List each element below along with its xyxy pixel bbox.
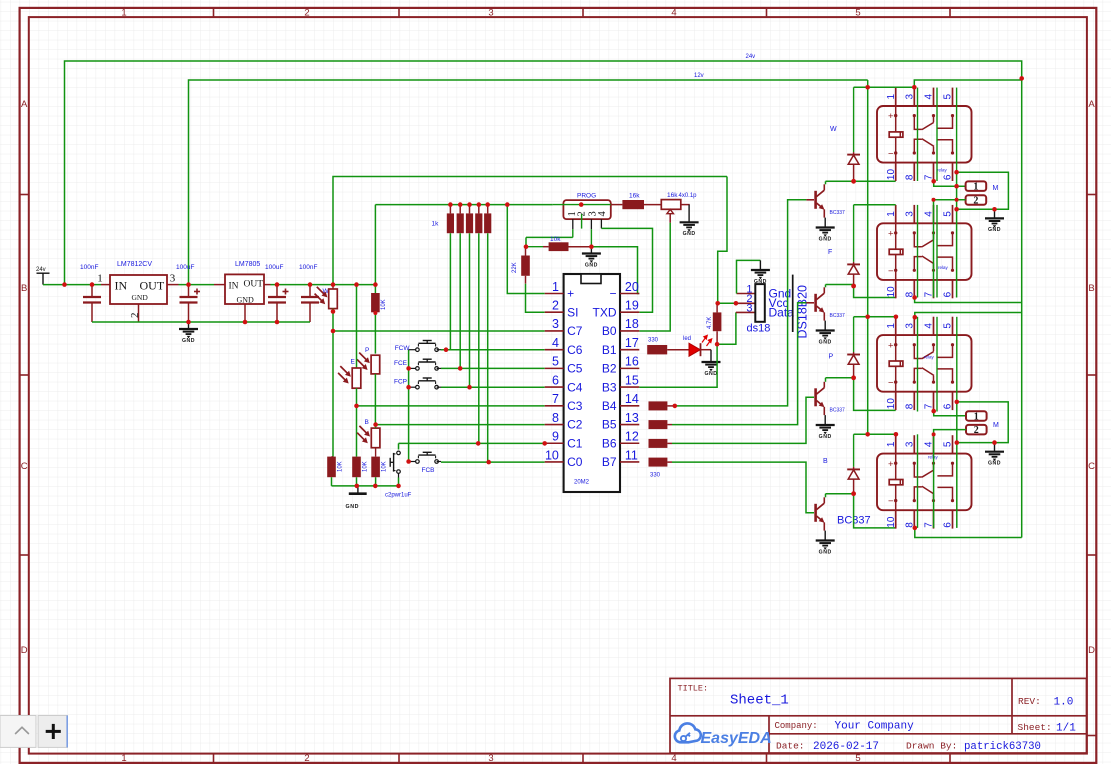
- ground: [824, 415, 826, 425]
- svg-text:B0: B0: [602, 324, 617, 338]
- svg-text:OUT: OUT: [140, 279, 165, 293]
- svg-text:+: +: [888, 459, 894, 470]
- svg-text:1: 1: [121, 8, 126, 19]
- svg-text:C5: C5: [567, 362, 583, 376]
- resistor R1 10K: [327, 457, 336, 478]
- wire net C4: [441, 386, 545, 388]
- regulator U2 LM7805: [225, 274, 264, 304]
- svg-text:GND: GND: [683, 231, 696, 237]
- svg-text:A: A: [21, 99, 28, 110]
- svg-text:3: 3: [746, 303, 752, 315]
- wire Q1 collector to relay pin10: [825, 181, 827, 184]
- svg-text:A: A: [1088, 99, 1095, 110]
- svg-text:1: 1: [886, 441, 897, 447]
- svg-text:GND: GND: [237, 296, 255, 305]
- wire supply to relay4 pin8: [915, 528, 1022, 538]
- svg-text:8: 8: [905, 403, 916, 409]
- svg-text:1: 1: [886, 323, 897, 329]
- svg-text:GND: GND: [819, 434, 832, 440]
- MCU pin 6 C4: [545, 386, 564, 388]
- header PROG: [563, 200, 610, 219]
- ground: [994, 209, 996, 218]
- resistor 4.7K pullup: [716, 303, 718, 312]
- svg-text:Data: Data: [769, 306, 795, 320]
- svg-text:+: +: [888, 229, 894, 240]
- wire net C1: [399, 442, 545, 444]
- wire 12v rail: [189, 80, 868, 285]
- svg-text:C6: C6: [567, 343, 583, 357]
- MCU pin 3 C7: [545, 330, 564, 332]
- svg-text:patrick63730: patrick63730: [964, 741, 1041, 753]
- svg-text:C0: C0: [567, 455, 583, 469]
- ground: [824, 218, 826, 228]
- diode D1: [853, 87, 855, 152]
- wire through relay2: [917, 205, 919, 298]
- svg-text:10: 10: [545, 448, 559, 462]
- ground: [590, 247, 592, 254]
- resistor array 1k x5: [449, 205, 451, 214]
- svg-text:F: F: [828, 249, 832, 256]
- EasyEDA logo: [675, 723, 701, 742]
- bus marker: [792, 275, 794, 332]
- MCU pin 9 C1: [545, 442, 564, 444]
- relay K3: [895, 317, 897, 335]
- svg-text:20M2: 20M2: [574, 480, 590, 486]
- svg-text:C: C: [1088, 461, 1095, 472]
- svg-text:IN: IN: [229, 282, 239, 292]
- svg-text:3: 3: [488, 8, 493, 19]
- wire relay1 pin6 to relay2 pin5: [957, 172, 1009, 209]
- svg-text:2: 2: [129, 313, 141, 319]
- svg-text:1.0: 1.0: [1054, 697, 1074, 709]
- svg-text:B4: B4: [602, 399, 617, 413]
- MCU pin 18: [620, 330, 639, 332]
- wire 5v rail: [271, 284, 376, 286]
- svg-text:C2: C2: [567, 418, 583, 432]
- connector ds18: [755, 284, 765, 322]
- svg-text:5: 5: [552, 355, 559, 369]
- wire net C3: [357, 405, 545, 407]
- svg-text:1: 1: [886, 94, 897, 100]
- MCU pin 11: [620, 461, 639, 463]
- svg-text:100nF: 100nF: [299, 264, 317, 271]
- svg-text:1/1: 1/1: [1056, 722, 1076, 734]
- svg-text:330: 330: [650, 473, 661, 479]
- svg-text:B3: B3: [602, 380, 617, 394]
- svg-text:GND: GND: [988, 461, 1001, 467]
- ground: [824, 321, 826, 331]
- resistor R4 10K: [371, 457, 380, 478]
- svg-text:4: 4: [597, 211, 608, 217]
- svg-text:+: +: [888, 111, 894, 122]
- svg-text:1: 1: [97, 273, 103, 285]
- svg-text:B: B: [365, 419, 369, 426]
- svg-text:c2pwr1uF: c2pwr1uF: [385, 493, 412, 499]
- ground: [824, 531, 826, 541]
- wire array to C0: [487, 233, 489, 462]
- svg-text:FCP: FCP: [394, 379, 407, 386]
- prog pin3 stub: [590, 219, 592, 229]
- pushbutton FCW: [409, 349, 418, 351]
- wire trimmer to B0: [669, 214, 671, 223]
- svg-text:−: −: [888, 496, 894, 507]
- svg-text:330: 330: [648, 338, 659, 344]
- svg-text:9: 9: [552, 430, 559, 444]
- svg-text:BC337: BC337: [830, 210, 846, 216]
- pushbutton FCP: [409, 386, 418, 388]
- wire ds18 ground: [737, 293, 756, 295]
- svg-text:TITLE:: TITLE:: [678, 684, 709, 694]
- wire supply to relay2 pin8: [915, 298, 1022, 303]
- svg-text:3: 3: [905, 441, 916, 447]
- prog pin4 to TXD: [600, 219, 602, 228]
- wire 24v input rail: [43, 284, 101, 286]
- wire 12v distribution vertical: [867, 87, 869, 434]
- wire 24v to top rail and relays: [65, 61, 1022, 538]
- relay K1: [895, 88, 897, 106]
- svg-text:100uF: 100uF: [265, 264, 283, 271]
- svg-text:B5: B5: [602, 418, 617, 432]
- wire relay4 pin1 row: [854, 433, 896, 435]
- resistor R3 10K: [352, 457, 361, 478]
- svg-text:2: 2: [304, 8, 309, 19]
- svg-text:GND: GND: [182, 338, 195, 344]
- svg-text:18: 18: [625, 317, 639, 331]
- wire through relay1: [917, 88, 919, 181]
- svg-text:14: 14: [625, 392, 639, 406]
- transistor Q2 BC337: [814, 294, 817, 312]
- wire Q2 collector to relay pin10: [825, 285, 827, 288]
- wire netport2 to relay4: [934, 430, 966, 528]
- wire B4 to Q1 base: [675, 200, 807, 406]
- svg-text:PROG: PROG: [577, 192, 596, 199]
- svg-text:+: +: [567, 287, 574, 301]
- wire sensor ground rail: [332, 485, 399, 487]
- svg-text:OUT: OUT: [244, 280, 264, 290]
- MCU pin 15: [620, 386, 639, 388]
- resistor R2 10K vertical: [371, 293, 380, 312]
- trimmer 16k: [661, 200, 681, 210]
- resistor 10k divider: [526, 246, 543, 248]
- diode D2: [853, 205, 855, 262]
- svg-text:6: 6: [552, 373, 559, 387]
- svg-text:EasyEDA: EasyEDA: [701, 730, 772, 747]
- wire relay2 pin1 row: [854, 204, 896, 206]
- transistor Q3 BC337: [814, 388, 817, 406]
- svg-text:12: 12: [625, 430, 639, 444]
- svg-text:1: 1: [973, 182, 978, 193]
- svg-text:2: 2: [973, 196, 978, 207]
- svg-text:3: 3: [905, 211, 916, 217]
- svg-text:19: 19: [625, 299, 639, 313]
- wire B7 to Q4 base: [672, 462, 814, 513]
- svg-text:22K: 22K: [512, 262, 518, 273]
- svg-text:C4: C4: [567, 380, 583, 394]
- svg-text:B6: B6: [602, 436, 617, 450]
- svg-text:16: 16: [625, 355, 639, 369]
- svg-text:5: 5: [943, 211, 954, 217]
- svg-text:C: C: [21, 461, 28, 472]
- svg-text:GND: GND: [132, 293, 149, 302]
- relay K2: [895, 205, 897, 223]
- wire LDR W to C7 and R1: [332, 309, 334, 457]
- wire net C2: [376, 424, 545, 426]
- svg-text:4: 4: [924, 94, 935, 100]
- MCU pin 16: [620, 367, 639, 369]
- wire 12v node: [179, 284, 215, 286]
- capacitor C3 100uF: [276, 285, 278, 297]
- svg-text:4: 4: [552, 336, 559, 350]
- transistor Q4 BC337: [814, 504, 817, 522]
- svg-text:10: 10: [886, 398, 897, 410]
- svg-text:13: 13: [625, 411, 639, 425]
- svg-text:3: 3: [552, 317, 559, 331]
- svg-text:20: 20: [625, 280, 639, 294]
- wire net C0: [441, 461, 545, 463]
- capacitor C1 100nF: [91, 285, 93, 297]
- wire 5v prog rail: [375, 204, 552, 206]
- title block: [670, 678, 1087, 753]
- wire relay3 pin6 to relay4 pin5: [957, 402, 1008, 443]
- resistor 330 on B1: [647, 345, 667, 354]
- wire relay3 pin1 row: [854, 316, 896, 318]
- svg-text:Sheet_1: Sheet_1: [730, 693, 789, 709]
- svg-text:D: D: [21, 645, 28, 656]
- zoom button: [38, 716, 67, 748]
- MCU pin 1 V+: [545, 293, 564, 295]
- svg-text:SI: SI: [567, 305, 578, 319]
- svg-text:100nF: 100nF: [80, 264, 98, 271]
- svg-text:+: +: [888, 340, 894, 351]
- svg-text:FCB: FCB: [422, 467, 435, 474]
- capacitor C4 100nF: [309, 285, 311, 297]
- wire B5 to Q2 base: [672, 303, 806, 425]
- svg-text:4.7K: 4.7K: [707, 317, 713, 329]
- svg-text:7: 7: [552, 392, 559, 406]
- svg-text:−: −: [888, 266, 894, 277]
- svg-text:2026-02-17: 2026-02-17: [813, 741, 879, 753]
- resistor 330 on B6: [649, 439, 668, 448]
- svg-text:B: B: [823, 458, 828, 465]
- ground: [994, 443, 996, 452]
- svg-text:Your Company: Your Company: [835, 721, 915, 733]
- svg-text:6: 6: [943, 522, 954, 528]
- MCU pin 4 C6: [545, 349, 564, 351]
- svg-text:1: 1: [121, 753, 126, 764]
- pushbutton FCB: [409, 461, 418, 463]
- svg-text:C3: C3: [567, 399, 583, 413]
- resistor 16k: [611, 204, 623, 206]
- netport 2 lower: [966, 425, 987, 435]
- svg-text:3: 3: [905, 94, 916, 100]
- prog pin2 stub: [581, 214, 583, 229]
- svg-text:4x0.1p: 4x0.1p: [679, 193, 698, 199]
- wire data net: [717, 312, 736, 344]
- svg-text:10: 10: [886, 516, 897, 528]
- svg-text:W: W: [830, 126, 837, 133]
- wire relay1 pin7 to netport: [934, 181, 966, 186]
- wire prog gnd to MCU pin20: [591, 247, 639, 294]
- svg-text:12v: 12v: [694, 73, 704, 79]
- svg-text:P: P: [829, 354, 834, 361]
- wire netport2 to relay2: [934, 200, 966, 298]
- svg-text:B: B: [1088, 283, 1094, 294]
- svg-text:led: led: [683, 336, 691, 342]
- svg-text:−: −: [609, 287, 616, 301]
- svg-text:8: 8: [905, 174, 916, 180]
- MCU pin 5 C5: [545, 367, 564, 369]
- pushbutton FCE: [409, 367, 418, 369]
- wire relay3 pin3 feed: [915, 313, 1022, 318]
- prog pin1 stub: [572, 219, 574, 229]
- pushbutton vertical on C1: [398, 443, 400, 449]
- wire 22K to SI: [526, 284, 545, 313]
- wire Q3 collector to relay pin10: [825, 378, 827, 382]
- svg-text:6: 6: [943, 174, 954, 180]
- svg-text:16k: 16k: [629, 192, 640, 199]
- svg-text:IN: IN: [115, 279, 128, 293]
- MCU pin 8 C2: [545, 424, 564, 426]
- svg-text:7: 7: [924, 403, 935, 409]
- svg-text:relay: relay: [938, 265, 949, 270]
- svg-text:2: 2: [304, 753, 309, 764]
- svg-text:1: 1: [974, 411, 979, 422]
- wire button common vertical: [408, 350, 410, 462]
- MCU pin 13: [620, 424, 639, 426]
- trimmer right to ground: [681, 204, 690, 206]
- svg-text:GND: GND: [819, 236, 832, 242]
- wire relay3 pin7 to netport: [934, 411, 966, 416]
- svg-text:100uF: 100uF: [176, 264, 194, 271]
- svg-text:5: 5: [943, 323, 954, 329]
- MCU pin 20: [620, 293, 639, 295]
- MCU pin 19: [620, 311, 639, 313]
- svg-text:relay: relay: [924, 355, 935, 360]
- svg-text:6: 6: [943, 291, 954, 297]
- MCU pin 14: [620, 405, 639, 407]
- diode D4: [853, 434, 855, 467]
- svg-text:1: 1: [886, 211, 897, 217]
- netport 1 lower: [966, 411, 987, 421]
- resistor 330 on B7: [649, 458, 668, 467]
- svg-text:10K: 10K: [338, 461, 344, 472]
- svg-text:10K: 10K: [363, 461, 369, 472]
- wire Vcc feed: [718, 177, 727, 304]
- svg-text:BC337: BC337: [830, 407, 846, 413]
- MCU pin 10 C0: [545, 461, 564, 463]
- svg-text:GND: GND: [704, 371, 717, 377]
- svg-text:24v: 24v: [746, 54, 756, 60]
- resistor 22K: [525, 247, 527, 256]
- svg-text:11: 11: [625, 448, 638, 462]
- svg-text:10: 10: [886, 286, 897, 298]
- MCU U3 PICAXE 20M2: [564, 274, 620, 492]
- svg-text:4: 4: [671, 8, 676, 19]
- diode D3: [853, 317, 855, 352]
- svg-text:GND: GND: [819, 549, 832, 555]
- svg-text:4: 4: [671, 753, 676, 764]
- svg-text:M: M: [993, 422, 999, 429]
- svg-text:3: 3: [170, 273, 176, 285]
- svg-text:GND: GND: [988, 227, 1001, 233]
- wire array to C4: [469, 233, 471, 387]
- svg-text:P: P: [365, 347, 369, 354]
- svg-text:5: 5: [855, 753, 860, 764]
- svg-text:GND: GND: [819, 339, 832, 345]
- relay K4: [895, 435, 897, 453]
- svg-text:5: 5: [943, 94, 954, 100]
- resistor 330 on B5: [649, 420, 668, 429]
- svg-text:10K: 10K: [381, 299, 387, 310]
- wire through relay3: [917, 317, 919, 412]
- svg-text:C1: C1: [567, 436, 583, 450]
- wire array to C5: [459, 233, 461, 368]
- svg-text:16k: 16k: [667, 192, 678, 199]
- svg-text:−: −: [888, 149, 894, 160]
- ground bar: [357, 486, 359, 494]
- svg-text:D: D: [1088, 645, 1095, 656]
- svg-text:8: 8: [552, 411, 559, 425]
- svg-text:5: 5: [943, 441, 954, 447]
- svg-text:10K: 10K: [382, 461, 388, 472]
- wire net C6: [441, 349, 545, 351]
- transistor Q1 BC337: [814, 191, 817, 209]
- svg-text:REV:: REV:: [1018, 696, 1041, 707]
- wire Q4 collector to relay pin10: [825, 494, 827, 498]
- net flag 24v input: [37, 273, 50, 284]
- svg-text:2: 2: [974, 425, 979, 436]
- wire 12v row to relay1: [854, 86, 915, 88]
- svg-text:GND: GND: [585, 262, 598, 268]
- ground: [188, 322, 190, 329]
- LED led: [689, 343, 700, 356]
- svg-text:15: 15: [625, 373, 639, 387]
- svg-text:2: 2: [552, 299, 559, 313]
- svg-text:LM7812CV: LM7812CV: [117, 261, 152, 268]
- wire through relay4: [917, 434, 919, 528]
- svg-text:B: B: [21, 283, 27, 294]
- svg-text:ds18: ds18: [747, 323, 771, 335]
- svg-text:E: E: [351, 359, 356, 366]
- wire array to C1: [478, 233, 480, 443]
- svg-text:B7: B7: [602, 455, 617, 469]
- wire ground rail under regulators: [92, 321, 310, 323]
- svg-text:B1: B1: [602, 343, 617, 357]
- resistor 330 on B4: [649, 401, 668, 410]
- wire 5v to MCU pin1: [507, 205, 544, 294]
- svg-text:4: 4: [924, 323, 935, 329]
- svg-text:relay: relay: [937, 168, 948, 173]
- MCU pin 17: [620, 349, 639, 351]
- svg-text:M: M: [993, 185, 999, 192]
- wire array to C6: [449, 233, 451, 350]
- svg-text:TXD: TXD: [593, 305, 617, 319]
- svg-text:6: 6: [943, 403, 954, 409]
- svg-text:B2: B2: [602, 362, 617, 376]
- svg-text:10: 10: [886, 169, 897, 181]
- wire prog pin1 to divider: [526, 236, 573, 238]
- svg-text:C7: C7: [567, 324, 583, 338]
- MCU pin 7 C3: [545, 405, 564, 407]
- wire net C7: [333, 330, 545, 332]
- svg-text:BC337: BC337: [830, 313, 846, 319]
- svg-text:Sheet:: Sheet:: [1018, 722, 1052, 733]
- svg-text:Drawn By:: Drawn By:: [906, 740, 957, 751]
- wire net C5: [441, 367, 545, 369]
- svg-text:1: 1: [552, 280, 559, 294]
- ground: [710, 350, 712, 362]
- regulator U1 LM7812CV: [110, 275, 167, 304]
